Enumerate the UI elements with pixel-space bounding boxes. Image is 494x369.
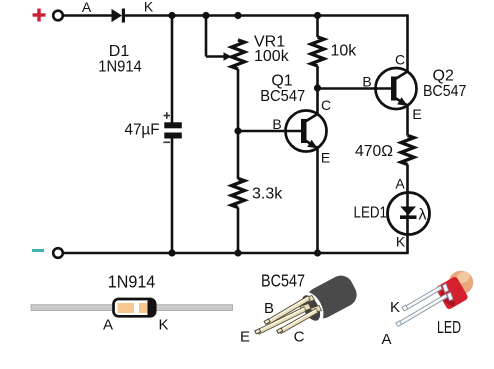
svg-text:3.3k: 3.3k bbox=[252, 186, 283, 203]
potentiometer VR1 zigzag bbox=[232, 40, 245, 69]
junction node: top rail / 10k resistor top bbox=[314, 12, 321, 19]
junction node: 10k / Q2 base / Q1 collector bbox=[314, 84, 321, 91]
transistor Q1 symbol bbox=[286, 111, 327, 152]
wire: 10k bottom to junction bbox=[316, 66, 319, 88]
svg-text:λ: λ bbox=[419, 207, 427, 224]
resistor 470R zigzag bbox=[401, 136, 414, 165]
wire: junction to Q2 base bbox=[318, 87, 392, 90]
transistor Q2 symbol bbox=[376, 68, 417, 109]
photo: BC547 leg C bbox=[279, 309, 318, 334]
wire: bottom rail bbox=[63, 252, 409, 255]
photo: LED leg A bbox=[399, 294, 447, 325]
wire: Q2 emitter down to 470R resistor bbox=[406, 106, 409, 136]
svg-text:E: E bbox=[240, 329, 250, 346]
diode D1 symbol bbox=[112, 9, 126, 23]
junction node: top rail / capacitor branch bbox=[168, 12, 175, 19]
svg-text:47µF: 47µF bbox=[125, 122, 160, 139]
photo: LED leg K highlight bbox=[406, 287, 441, 308]
svg-text:E: E bbox=[412, 106, 421, 122]
resistor 3.3k zigzag bbox=[232, 179, 245, 208]
positive terminal bbox=[53, 11, 63, 21]
positive supply marker + bbox=[33, 9, 46, 22]
LED LED1 symbol bbox=[388, 193, 430, 235]
junction node: Q1 base tap bbox=[234, 127, 241, 134]
wire: Q1 base bbox=[238, 130, 303, 133]
svg-text:BC547: BC547 bbox=[423, 83, 467, 100]
junction node: top rail / VR1 wiper branch bbox=[202, 12, 209, 19]
negative terminal bbox=[53, 248, 63, 258]
resistor 10k zigzag bbox=[311, 37, 324, 66]
svg-text:A: A bbox=[103, 317, 113, 334]
capacitor polarity mark - bbox=[164, 141, 171, 143]
svg-text:C: C bbox=[294, 329, 305, 346]
svg-text:A: A bbox=[395, 176, 405, 192]
photo: LED dome lens bbox=[449, 271, 474, 295]
svg-text:C: C bbox=[395, 52, 405, 68]
junction node: bottom rail / Q1 emitter bbox=[314, 249, 321, 256]
photo: 1N914 diode body bbox=[114, 299, 156, 316]
photo: BC547 package face ring bbox=[296, 290, 326, 326]
VR1 wiper arrow bbox=[224, 52, 232, 60]
photo: LED leg K bbox=[405, 286, 443, 310]
svg-text:D1: D1 bbox=[109, 43, 130, 60]
svg-text:BC547: BC547 bbox=[260, 88, 305, 105]
wire: VR1 wiper branch vertical bbox=[205, 16, 208, 57]
wire: positive terminal to diode D1 anode bbox=[63, 14, 112, 17]
negative supply marker - bbox=[32, 249, 44, 252]
svg-text:Q2: Q2 bbox=[433, 68, 454, 85]
wire: 3.3k bottom to bottom rail bbox=[237, 207, 240, 253]
photo: LED leg A highlight bbox=[400, 295, 446, 322]
photo: LED leg A tip bbox=[396, 321, 402, 327]
svg-text:BC547: BC547 bbox=[261, 271, 305, 291]
wire: VR1 bottom to 3.3k top bbox=[237, 69, 240, 179]
svg-text:B: B bbox=[272, 116, 281, 132]
photo: BC547 leg crimps on face bbox=[300, 296, 322, 314]
photo: BC547 leg B bbox=[266, 296, 310, 325]
photo: BC547 leg tip highlights bbox=[255, 319, 283, 334]
svg-text:B: B bbox=[362, 74, 371, 90]
svg-text:K: K bbox=[158, 317, 168, 334]
photo: LED dome highlight bbox=[454, 269, 471, 285]
wire: Q1 emitter to bottom rail bbox=[316, 148, 319, 253]
svg-text:1N914: 1N914 bbox=[108, 272, 156, 292]
svg-text:470Ω: 470Ω bbox=[355, 143, 393, 160]
svg-text:A: A bbox=[381, 331, 391, 348]
photo: LED leg K tip bbox=[402, 305, 408, 311]
photo: BC547 leg E bbox=[257, 307, 306, 334]
wire: top-right corner down to Q2 collector bbox=[406, 16, 409, 72]
photo: LED leg crimps bbox=[443, 284, 454, 301]
junction node: bottom rail / capacitor bbox=[168, 249, 175, 256]
svg-text:LED1: LED1 bbox=[354, 205, 388, 222]
wire: junction down to Q1 collector bbox=[316, 88, 319, 114]
svg-text:LED: LED bbox=[437, 317, 461, 337]
junction node: bottom rail / 3.3k bbox=[234, 249, 241, 256]
svg-text:C: C bbox=[321, 97, 331, 113]
wire: 470R to LED1 and LED1 cathode to bottom rail bbox=[406, 164, 409, 253]
photo: LED body flange bbox=[435, 276, 469, 311]
svg-text:100k: 100k bbox=[254, 48, 290, 65]
svg-text:K: K bbox=[396, 234, 406, 250]
wire: 10k top to rail bbox=[316, 16, 319, 38]
svg-text:K: K bbox=[144, 0, 154, 15]
svg-text:A: A bbox=[82, 0, 92, 15]
svg-text:1N914: 1N914 bbox=[98, 59, 142, 76]
svg-text:E: E bbox=[321, 150, 330, 166]
junction node: top rail / VR1 top bbox=[234, 12, 241, 19]
wire: VR1 wiper branch horizontal bbox=[206, 55, 225, 58]
capacitor 47uF symbol bbox=[164, 122, 182, 138]
svg-text:K: K bbox=[390, 299, 400, 316]
photo: BC547 transistor package body bbox=[303, 271, 361, 322]
svg-text:B: B bbox=[264, 300, 274, 317]
wire: top rail down to capacitor positive plate bbox=[171, 16, 174, 124]
wire: top rail from D1 cathode to top-right corner bbox=[125, 14, 409, 17]
wire: capacitor negative plate down to bottom rail bbox=[171, 138, 174, 253]
photo: LED flange shading bbox=[441, 290, 456, 307]
photo: 1N914 diode lead wire bbox=[31, 305, 233, 311]
capacitor polarity mark + bbox=[164, 112, 171, 119]
svg-text:10k: 10k bbox=[331, 43, 358, 60]
